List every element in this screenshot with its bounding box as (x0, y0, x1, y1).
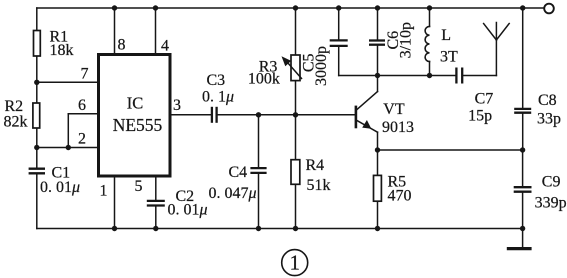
svg-text:339p: 339p (535, 194, 567, 211)
wire pin 1 (114, 176, 116, 229)
svg-text:0. 01μ: 0. 01μ (168, 202, 208, 219)
wire pin 3 output (170, 114, 212, 116)
svg-text:7: 7 (81, 66, 89, 83)
wire C5 branch (338, 8, 340, 40)
svg-text:8: 8 (118, 37, 126, 54)
node pin4 rail (153, 5, 158, 10)
svg-text:33p: 33p (537, 111, 561, 128)
svg-text:IC: IC (127, 94, 144, 113)
inductor L coil (425, 26, 429, 61)
svg-text:C4: C4 (229, 164, 248, 181)
ground (507, 247, 532, 250)
node C4 ground (256, 226, 261, 231)
svg-text:3/10p: 3/10p (398, 22, 415, 58)
svg-text:470: 470 (388, 188, 412, 205)
node pin2 mid junction (66, 145, 71, 150)
wire pin6-pin2 vertical link (67, 114, 69, 148)
wire pin 2 (37, 147, 99, 149)
svg-text:VT: VT (383, 101, 405, 118)
svg-text:1: 1 (289, 251, 300, 275)
wire tank node to C7 (378, 75, 457, 77)
node output R3/R4 junction (293, 112, 298, 117)
wire pin 8 (114, 8, 116, 55)
node R4 ground (293, 226, 298, 231)
node pin7 junction (34, 80, 39, 85)
terminal top right (544, 4, 554, 14)
svg-text:C8: C8 (538, 92, 557, 109)
wire C8/C9 branch (522, 8, 524, 108)
svg-text:15p: 15p (468, 108, 492, 125)
transistor Q1 VT 9013 (355, 106, 358, 129)
svg-text:L: L (441, 27, 451, 44)
svg-text:C3: C3 (207, 72, 226, 89)
capacitor C6 (369, 41, 385, 45)
wire top supply rail (37, 7, 545, 9)
wire pin 6 (68, 113, 99, 115)
svg-text:82k: 82k (4, 114, 28, 131)
antenna pole (495, 40, 497, 76)
svg-text:51k: 51k (307, 177, 331, 194)
capacitor C3 (212, 107, 217, 123)
wire L branch (429, 8, 431, 26)
wire R3/R4 branch (295, 8, 297, 229)
node emitter R5 (375, 147, 380, 152)
wire pin 7 (37, 81, 99, 83)
svg-text:3: 3 (173, 97, 181, 114)
wire emitter (357, 120, 378, 132)
node pin2 left junction (34, 145, 39, 150)
node L rail (427, 5, 432, 10)
svg-text:R2: R2 (5, 98, 24, 115)
svg-text:C9: C9 (542, 174, 561, 191)
svg-text:6: 6 (78, 97, 86, 114)
svg-text:4: 4 (161, 38, 169, 55)
node pin8 rail (112, 5, 117, 10)
svg-text:NE555: NE555 (113, 115, 163, 135)
op IC box U1 NE555 (99, 55, 171, 177)
node C6 rail (375, 5, 380, 10)
node tank L bottom (427, 73, 432, 78)
node tank C6/collector (375, 73, 380, 78)
wire C5 bottom link (339, 75, 378, 77)
resistor R5 (374, 175, 382, 201)
node R5 ground (375, 226, 380, 231)
resistor R1 (34, 31, 41, 57)
resistor R4 (291, 160, 300, 185)
node C8 rail (520, 5, 525, 10)
resistor R3 (variable) (291, 55, 300, 81)
node C5 rail (336, 5, 341, 10)
wire ground stub (522, 229, 524, 249)
capacitor C8 (514, 109, 531, 113)
wire pin 4 (155, 8, 157, 55)
capacitor C7 (456, 68, 462, 84)
svg-text:0. 01μ: 0. 01μ (40, 179, 80, 196)
resistor R2 (33, 103, 40, 128)
antenna prongs (484, 24, 497, 41)
svg-text:3000p: 3000p (313, 46, 330, 86)
node C8/C9 mid (520, 147, 525, 152)
svg-text:100k: 100k (248, 71, 280, 88)
svg-text:9013: 9013 (382, 119, 414, 136)
node C2 ground (153, 226, 158, 231)
wire C6 branch (377, 8, 379, 40)
wire left vertical branch (R1/R2/C1) (36, 8, 38, 168)
capacitor C4 (250, 168, 266, 173)
svg-text:0. 047μ: 0. 047μ (209, 185, 257, 202)
capacitor C2 (147, 201, 165, 206)
svg-text:C7: C7 (475, 90, 494, 107)
svg-text:1: 1 (100, 183, 108, 200)
wire C4 branch (258, 115, 260, 168)
svg-text:2: 2 (78, 131, 86, 148)
svg-text:5: 5 (135, 178, 143, 195)
svg-text:R4: R4 (306, 157, 325, 174)
wire emitter node to C9 (378, 149, 523, 151)
wire collector (377, 76, 379, 92)
wire bottom ground rail (37, 228, 523, 230)
capacitor C9 (514, 187, 532, 192)
svg-text:3T: 3T (440, 49, 458, 66)
node C9 ground (520, 226, 525, 231)
node output C4 junction (256, 112, 261, 117)
capacitor C1 (29, 169, 45, 174)
node R3 rail (293, 5, 298, 10)
svg-text:0. 1μ: 0. 1μ (202, 89, 234, 106)
node pin1 ground (112, 226, 117, 231)
svg-text:18k: 18k (50, 42, 74, 59)
wire pin 5 to C2 (155, 176, 157, 201)
capacitor C5 (330, 40, 348, 46)
figure number (1) (282, 250, 308, 276)
